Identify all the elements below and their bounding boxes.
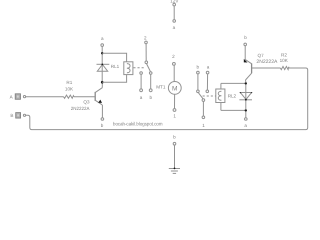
svg-text:2N2222A: 2N2222A — [71, 106, 91, 111]
svg-text:MT1: MT1 — [156, 84, 166, 89]
svg-text:Q3: Q3 — [83, 100, 90, 105]
svg-text:RL2: RL2 — [228, 94, 237, 99]
svg-text:b: b — [244, 35, 247, 40]
svg-text:12V: 12V — [170, 0, 179, 3]
svg-text:b: b — [173, 135, 176, 140]
svg-text:A: A — [10, 94, 14, 99]
svg-text:a: a — [244, 123, 247, 128]
svg-text:a: a — [173, 25, 176, 30]
svg-text:B: B — [10, 113, 13, 118]
svg-text:b: b — [150, 95, 153, 100]
svg-text:R2: R2 — [281, 52, 287, 57]
svg-text:bocah-cakil.blogspot.com: bocah-cakil.blogspot.com — [113, 121, 163, 127]
svg-text:1: 1 — [202, 123, 205, 128]
svg-text:b: b — [101, 123, 104, 128]
svg-text:10K: 10K — [280, 58, 289, 63]
svg-text:2: 2 — [144, 36, 147, 41]
svg-text:a: a — [207, 65, 210, 70]
svg-text:2: 2 — [172, 54, 175, 59]
svg-text:10K: 10K — [65, 87, 74, 92]
svg-text:M: M — [172, 86, 178, 93]
svg-text:R1: R1 — [66, 80, 72, 85]
svg-text:a: a — [140, 95, 143, 100]
svg-text:RL1: RL1 — [111, 64, 120, 69]
svg-text:1: 1 — [173, 113, 176, 118]
svg-text:a: a — [101, 36, 104, 41]
svg-text:Q7: Q7 — [258, 53, 265, 58]
svg-text:2N2222A: 2N2222A — [256, 59, 278, 65]
svg-text:b: b — [197, 65, 200, 70]
